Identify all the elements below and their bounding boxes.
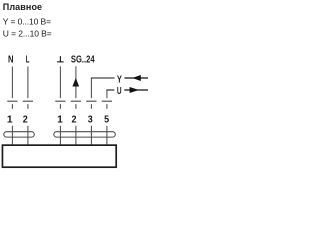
- svg-text:U: U: [117, 86, 122, 97]
- wire N into actuator: [11, 126, 13, 145]
- arrowhead input Y (points left): [132, 75, 141, 81]
- arrowhead output U (points right): [130, 87, 139, 93]
- wire stub below tick 1: [59, 104, 61, 109]
- svg-text:1: 1: [57, 114, 63, 125]
- svg-text:SG..24: SG..24: [71, 54, 95, 65]
- terminal tick 5: [102, 100, 112, 102]
- svg-text:5: 5: [104, 114, 109, 125]
- wire stub below tick 3: [90, 104, 92, 109]
- svg-text:3: 3: [88, 114, 93, 125]
- wire L into actuator: [27, 126, 29, 145]
- svg-text:U = 2...10 В=: U = 2...10 В=: [3, 29, 52, 39]
- ground symbol: [57, 56, 64, 62]
- svg-text:2: 2: [23, 114, 28, 125]
- actuator body box: [2, 145, 116, 167]
- connector block left (stadium): [4, 132, 35, 137]
- wire 2 into actuator: [75, 126, 77, 145]
- svg-text:Плавное: Плавное: [3, 2, 42, 12]
- wire 5 into actuator: [106, 126, 108, 145]
- wire stub below tick N: [11, 104, 13, 109]
- wire N vertical: [11, 67, 13, 99]
- wire Y to right edge: [125, 77, 149, 79]
- wire Y horizontal stub: [91, 77, 115, 79]
- svg-text:1: 1: [7, 114, 13, 125]
- wire U to right edge: [124, 89, 148, 91]
- wire 1 into actuator: [59, 126, 61, 145]
- terminal tick 2: [71, 100, 81, 102]
- wire terminal 2 vertical: [75, 66, 77, 98]
- svg-text:2: 2: [72, 114, 77, 125]
- terminal tick N: [7, 100, 17, 102]
- wire stub below tick 2: [75, 104, 77, 109]
- terminal tick 1: [55, 100, 65, 102]
- wire terminal 3 vertical: [90, 78, 92, 98]
- wire 3 into actuator: [90, 126, 92, 145]
- terminal tick L: [23, 100, 33, 102]
- wire stub below tick L: [27, 104, 29, 109]
- terminal tick 3: [86, 100, 96, 102]
- wire terminal 5 vertical: [106, 90, 108, 98]
- svg-text:L: L: [26, 54, 30, 65]
- svg-text:Y = 0...10 В=: Y = 0...10 В=: [3, 17, 51, 27]
- wire L vertical: [27, 67, 29, 99]
- supply arrow up on wire 2: [72, 78, 79, 87]
- wire stub below tick 5: [106, 104, 108, 109]
- connector block right (stadium): [54, 132, 116, 137]
- wire U horizontal stub: [106, 89, 114, 91]
- svg-text:Y: Y: [117, 74, 122, 85]
- wire terminal 1 vertical: [59, 66, 61, 98]
- svg-text:N: N: [8, 54, 14, 65]
